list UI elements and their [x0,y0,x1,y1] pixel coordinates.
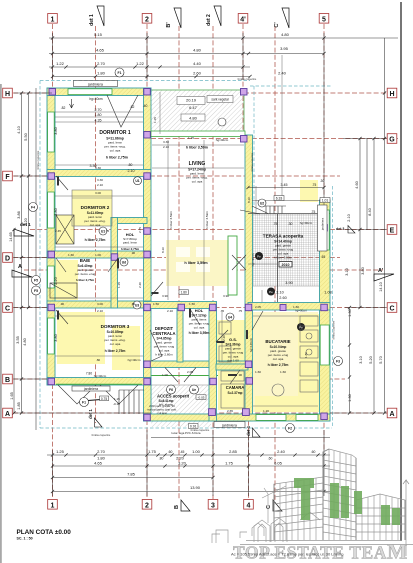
svg-text:1.80: 1.80 [181,291,187,295]
svg-text:1.60: 1.60 [255,370,261,374]
svg-text:2010: 2010 [282,263,290,267]
svg-text:.90: .90 [60,302,65,306]
svg-text:hg=40cm: hg=40cm [216,138,229,142]
marker F3 [334,357,343,366]
svg-text:hg=90cm: hg=90cm [300,221,313,225]
living terasa door [228,236,237,295]
svg-text:2.65: 2.65 [227,409,233,413]
svg-text:hg=90cm: hg=90cm [295,309,307,313]
marker F4 [29,203,38,212]
crane mast [262,486,286,523]
svg-text:1.85: 1.85 [17,402,21,409]
building left houses [212,530,228,543]
svg-text:h liber 3,59m: h liber 3,59m [184,261,208,265]
svg-text:.75: .75 [311,210,316,214]
label DORMITOR 1 [99,130,131,160]
svg-text:6.33: 6.33 [276,197,283,201]
C marker bottom [266,500,282,511]
svg-text:.75: .75 [238,309,243,313]
svg-text:U4: U4 [228,316,232,320]
svg-text:ACCES acoperit: ACCES acoperit [157,394,190,399]
svg-text:F5: F5 [34,289,38,293]
window left baie [48,266,55,288]
svg-text:sant vegetal: sant vegetal [211,98,228,102]
svg-text:U1: U1 [135,179,139,183]
svg-text:1.01: 1.01 [322,199,329,203]
wall axis3 vertical low [209,308,217,421]
building right low colonnade [356,494,405,540]
svg-text:U2: U2 [260,202,264,206]
svg-text:jardiniera: jardiniera [83,387,98,391]
svg-text:1.60: 1.60 [280,370,286,374]
svg-text:h liber 2,75m: h liber 2,75m [85,238,106,242]
terasa dims [273,196,332,301]
gridline A horizontal [13,412,151,414]
dim line above terasa [248,187,324,189]
det1 marker left [14,222,34,236]
svg-text:1.20: 1.20 [263,409,269,413]
svg-text:4.65: 4.65 [96,48,105,53]
svg-text:.65: .65 [321,255,326,259]
svg-text:1.80: 1.80 [97,71,106,76]
svg-text:3.10: 3.10 [345,268,349,275]
gridline E horizontal [30,229,248,231]
svg-text:F3: F3 [336,360,340,364]
wall left exterior [47,88,55,385]
axis box 1 top [48,14,58,24]
svg-text:Pe: Pe [257,255,261,259]
svg-text:det 3: det 3 [336,227,344,231]
label HOL1 [121,232,140,251]
svg-text:limita coperire: limita coperire [92,433,111,437]
living glazing [151,131,245,137]
svg-text:4.35: 4.35 [95,119,102,123]
svg-text:1.65: 1.65 [10,392,14,399]
svg-text:.60: .60 [268,457,273,461]
svg-text:F5: F5 [34,279,38,283]
roof limit dashed cyan [40,81,333,429]
A' section marker right [374,268,394,281]
marker F2 [286,424,295,433]
svg-text:.80: .80 [96,358,101,362]
svg-text:2.10: 2.10 [276,291,283,295]
wall mid dormitor2 [111,218,147,224]
svg-text:3.45: 3.45 [281,183,288,187]
jardiniera box bottom-left [72,386,110,391]
svg-text:.40: .40 [143,104,148,108]
svg-text:LIVING: LIVING [189,161,206,167]
svg-text:0.75: 0.75 [101,397,107,401]
marker U6 [258,199,266,207]
window left dormitor2 [48,192,55,228]
window right terasa wall [320,210,329,250]
svg-text:7.85: 7.85 [127,472,136,477]
label CAMARA [226,385,245,395]
svg-text:1.60: 1.60 [68,253,74,257]
svg-text:.82: .82 [61,106,66,110]
svg-text:3: 3 [211,502,215,509]
svg-text:det 1: det 1 [88,408,93,418]
dark door leafs [57,177,248,377]
frame right edge [400,2,402,541]
gridline 3 / det2 vertical [212,26,214,90]
hatched veranda top [151,90,245,135]
axis box F left [3,171,13,181]
svg-text:cul apa: cul apa [157,411,166,415]
svg-text:6.47: 6.47 [189,105,198,110]
window top dormitor1 [68,89,112,95]
svg-text:.60: .60 [131,302,136,306]
window bottom camara [256,415,286,421]
svg-text:h liber 2,75m: h liber 2,75m [106,156,128,160]
svg-text:3.30: 3.30 [95,166,101,170]
svg-text:cul. apa: cul. apa [110,149,121,153]
axis box B left [3,374,13,384]
bottom dimension lines [47,430,330,496]
svg-text:5.50: 5.50 [24,133,28,140]
gridline 5 vertical [323,24,325,214]
svg-text:h liber 2,60m: h liber 2,60m [155,353,173,357]
wall C baie/dormitor3 [47,301,151,308]
wall hol bottom [144,361,252,368]
svg-text:h liber 2,75m: h liber 2,75m [76,278,95,282]
svg-text:2.10: 2.10 [347,214,351,221]
interior dim lines [55,55,318,406]
gridline C horizontal [13,307,387,309]
svg-text:1.50: 1.50 [189,302,195,306]
svg-text:3.10: 3.10 [359,356,363,363]
grid bubbles top [48,6,329,28]
svg-text:3.30: 3.30 [163,140,169,144]
wall axis2 vertical [144,88,152,421]
svg-text:BUCATARIE: BUCATARIE [265,339,290,344]
svg-text:3.90: 3.90 [285,281,292,285]
axis box 4' top [238,14,248,24]
svg-text:D: D [5,256,10,263]
svg-text:1.75: 1.75 [225,461,234,466]
svg-text:F1: F1 [82,401,86,405]
svg-text:F: F [5,174,10,181]
svg-text:2.05: 2.05 [187,370,193,374]
axis box D left [3,253,13,263]
yellow furniture patches [50,180,319,412]
marker U2 [99,227,107,235]
wall dormitor3 bottom [47,378,151,386]
marker F1 bottom [80,398,89,407]
windows green [48,89,330,421]
svg-text:5.20: 5.20 [369,356,373,363]
svg-text:20.19: 20.19 [186,98,197,103]
svg-text:C: C [389,306,394,313]
det4 marker [246,425,260,437]
wall depozit/hol [177,308,183,362]
marker U1 [134,177,142,185]
svg-text:.60: .60 [311,450,316,454]
svg-text:cul. apa: cul. apa [192,180,203,184]
svg-text:3.80: 3.80 [54,334,58,341]
limita coperire labels [36,77,336,432]
wall axis4 vertical [245,135,253,421]
bucatarie table [219,316,318,408]
svg-text:2.60: 2.60 [279,296,286,300]
svg-text:1.15: 1.15 [117,282,121,288]
svg-text:.30: .30 [288,222,293,226]
label BUCATARIE [265,339,290,367]
svg-text:limita coperire: limita coperire [250,152,254,171]
svg-text:G: G [389,137,395,144]
svg-text:2.20: 2.20 [222,335,226,341]
svg-text:h liber 3.59m: h liber 3.59m [205,211,209,229]
svg-text:6.05: 6.05 [274,461,283,466]
walls [47,88,330,421]
svg-text:A': A' [378,268,384,274]
marker F1 top [115,68,124,77]
jardiniera bottom [214,422,245,428]
svg-text:1.15: 1.15 [114,397,120,401]
wall terasa/bucatarie [248,303,330,311]
axis box E right [387,225,397,235]
svg-text:limita coperire: limita coperire [36,150,40,169]
svg-text:det 1: det 1 [89,14,95,26]
svg-text:PLAN COTA ±0.00: PLAN COTA ±0.00 [17,529,72,536]
wall F dormitor1/2 [47,170,151,177]
svg-text:CAMARA: CAMARA [226,385,245,390]
circled markers [29,68,343,433]
svg-text:A: A [18,264,22,270]
svg-text:jardiniera: jardiniera [221,423,237,427]
svg-text:2.10: 2.10 [97,309,103,313]
svg-text:4.80: 4.80 [193,48,202,53]
gridline H horizontal [13,92,150,94]
window bottom bucatarie [296,415,318,421]
svg-text:-0.05: -0.05 [197,396,204,400]
axis box 3 bottom [208,500,218,510]
svg-text:.60: .60 [168,450,173,454]
watermark green accents [294,478,400,525]
window left dormitor3 [48,318,55,354]
svg-text:5.70: 5.70 [379,356,383,363]
svg-text:C': C' [274,22,280,28]
svg-text:3.55: 3.55 [16,336,20,343]
svg-text:jardiniera: jardiniera [321,218,325,232]
svg-text:2.70: 2.70 [97,61,106,66]
svg-text:BAIE: BAIE [80,258,91,263]
svg-text:2.10: 2.10 [128,169,135,173]
marker U3 [120,258,128,266]
svg-text:H: H [5,91,10,98]
svg-text:Ac = 105.59mp Adesf.ace = 72.: Ac = 105.59mp Adesf.ace = 72.89mp per. l… [231,552,344,557]
svg-text:.90: .90 [131,251,136,255]
C' marker top [274,8,289,28]
svg-text:hg=40cm: hg=40cm [251,253,255,266]
svg-text:C: C [5,306,10,313]
svg-text:2.45: 2.45 [55,229,61,233]
svg-text:1: 1 [51,502,55,509]
svg-text:1.30: 1.30 [348,309,352,316]
svg-text:4.80: 4.80 [281,32,290,37]
B' marker top [166,8,181,28]
marker F5b [32,286,41,295]
svg-text:2.20: 2.20 [54,277,58,284]
grid bubbles bottom [48,372,282,512]
svg-text:3.80: 3.80 [361,267,365,274]
label DORMITOR 2 [81,205,110,242]
wall dormitor2/hol1 vertical [111,218,118,258]
wall baie/hol1 [111,251,118,308]
svg-text:2.40: 2.40 [278,71,287,76]
svg-text:3.90: 3.90 [162,294,168,298]
marker F5a [32,276,41,285]
axis box C right [387,303,397,313]
A section marker left [12,264,32,277]
svg-text:1.50: 1.50 [153,302,159,306]
svg-text:A: A [5,411,10,418]
axis box H right [387,88,397,98]
svg-text:1.30: 1.30 [348,394,352,401]
gridline F horizontal [13,175,340,177]
svg-text:4.60: 4.60 [355,181,359,188]
svg-text:det 1: det 1 [20,222,31,227]
svg-text:2: 2 [145,502,149,509]
svg-text:B: B [174,505,180,509]
PLAN COTA title [17,529,72,541]
svg-text:H: H [389,91,394,98]
svg-text:h liber 3.59m: h liber 3.59m [169,211,173,229]
window right bucatarie [320,325,329,365]
svg-text:C: C [266,505,272,509]
svg-text:3.80: 3.80 [54,208,58,215]
svg-text:.35: .35 [220,309,225,313]
svg-text:3.95: 3.95 [280,46,289,51]
section B vertical [178,26,180,90]
svg-text:Ue: Ue [192,388,196,392]
top dimension lines [49,33,398,413]
svg-text:lucar. lega PVC-S Dura: lucar. lega PVC-S Dura [172,431,201,435]
svg-text:2.70: 2.70 [95,108,102,112]
svg-text:4: 4 [247,502,251,509]
svg-text:.82: .82 [130,105,135,109]
svg-text:.75: .75 [312,183,317,187]
svg-text:3.86: 3.86 [17,211,21,218]
svg-text:14.65: 14.65 [9,232,13,242]
svg-text:.90: .90 [238,373,243,377]
axis box 1 bottom [48,500,58,510]
svg-text:1.00: 1.00 [162,373,168,377]
det1 marker bottom [88,408,102,427]
svg-text:2.70: 2.70 [97,449,106,454]
det2 marker top [206,6,221,26]
svg-text:2: 2 [145,16,149,23]
svg-text:2.75: 2.75 [138,227,142,233]
dimension tick marks [12,36,386,493]
antenna pole right [403,480,409,556]
label G.S. [223,337,244,363]
svg-text:4.65: 4.65 [94,461,103,466]
svg-text:DORMITOR 3: DORMITOR 3 [101,324,130,329]
svg-text:.80: .80 [159,457,164,461]
svg-text:1.22: 1.22 [56,61,65,66]
wall top dormitor1 [47,88,151,96]
axis box 4 bottom [244,500,254,510]
jardiniera top [74,81,118,87]
axis box 2 bottom [142,500,152,510]
svg-text:7.80: 7.80 [86,372,92,376]
svg-text:cul. apa: cul. apa [90,223,101,227]
svg-text:cul. apa: cul. apa [273,357,284,361]
interior dim speckle texts [55,117,313,435]
svg-text:SC. 1 : 50: SC. 1 : 50 [17,537,33,541]
gridline B horizontal [13,378,151,380]
level box 0.91 [189,424,199,429]
label LIVING [186,138,229,184]
svg-text:3.00: 3.00 [95,191,101,195]
wall gs/camara [216,364,248,370]
svg-text:1.25: 1.25 [56,449,65,454]
building mid-rise left [274,477,323,540]
svg-text:1.22: 1.22 [136,61,145,66]
marker F6 [167,385,176,394]
wall D dormitor2/baie [47,251,151,258]
svg-text:3.20: 3.20 [178,461,187,466]
label TERASA acoperita [263,234,304,268]
axis box H left [3,88,13,98]
svg-text:1.00: 1.00 [192,449,201,454]
svg-text:.75: .75 [273,222,278,226]
svg-text:8.40: 8.40 [368,208,372,215]
svg-text:2.10: 2.10 [163,145,169,149]
svg-text:F2: F2 [288,427,292,431]
svg-text:1.80: 1.80 [95,113,102,117]
marker U5 [226,313,234,321]
hatched acces bottom [151,385,212,414]
gridline 4' vertical [242,24,244,140]
wall hol top [144,302,217,309]
svg-text:2.40: 2.40 [277,449,286,454]
svg-text:h liber 2,75m: h liber 2,75m [268,363,289,367]
svg-text:8.10: 8.10 [161,247,165,253]
svg-text:13.90: 13.90 [190,485,201,490]
svg-text:limita coperire: limita coperire [238,77,257,81]
svg-text:1.08: 1.08 [324,291,331,295]
svg-text:2.05: 2.05 [255,305,261,309]
grid bubbles left [3,88,34,418]
room labels [75,130,304,407]
label HOL2 [189,308,210,335]
left dimension lines [14,88,151,430]
svg-text:TERASA acoperita: TERASA acoperita [263,234,304,239]
det1 section vertical [95,26,97,423]
level arrow dormitor1 [70,99,74,108]
Pe markers [255,252,305,331]
wall right exterior [320,200,331,421]
svg-text:h liber 3,59m: h liber 3,59m [186,146,208,150]
terasa top edge [248,213,330,215]
axis box A right [387,408,397,418]
right wing upper storage box [311,205,327,259]
right dimension lines [330,139,398,414]
axis box 5 top [319,14,329,24]
svg-text:Ud: Ud [122,261,127,265]
svg-text:1.00: 1.00 [95,253,101,257]
svg-text:F1: F1 [118,71,122,75]
section A-A horizontal [24,269,248,271]
label DEPOZIT CENTRALA [152,326,175,357]
svg-text:F6: F6 [169,388,173,392]
svg-text:3.00: 3.00 [97,302,103,306]
gridline G horizontal [151,138,387,140]
axis box C left [3,303,13,313]
gridline 1 vertical [52,24,54,499]
